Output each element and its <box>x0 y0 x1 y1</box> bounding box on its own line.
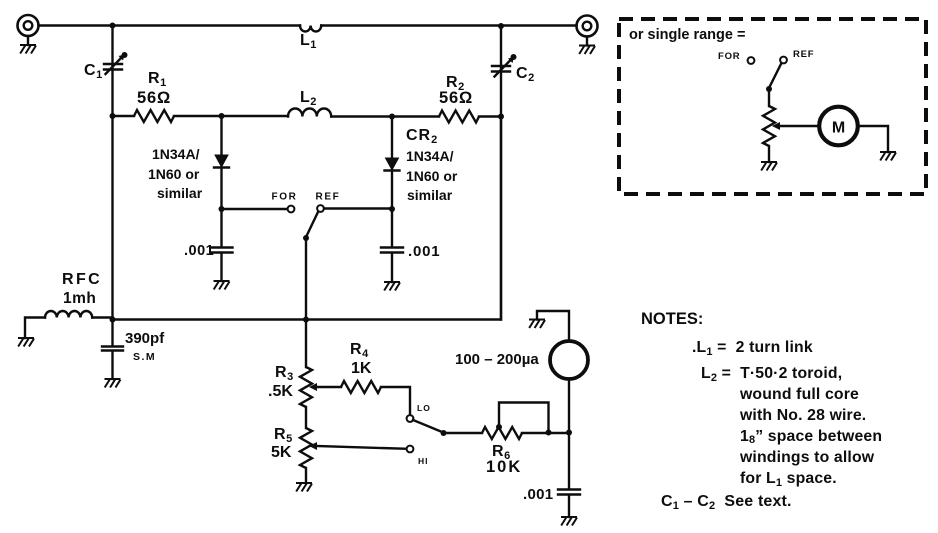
wire switch pole down to R3 <box>305 238 307 367</box>
wire mid rail: L2 to R2 <box>331 115 439 117</box>
node dot diode2 top <box>389 114 395 120</box>
node dot top-left <box>110 23 116 29</box>
capacitor C2 variable <box>492 54 535 84</box>
capacitor C3 .001 (left) <box>184 209 233 281</box>
diode CR2 <box>385 117 458 210</box>
capacitor 390pf <box>102 320 165 380</box>
potentiometer R3 <box>268 364 341 407</box>
rheostat R6 <box>482 403 549 477</box>
wire diode1 to FOR terminal <box>222 208 288 210</box>
svg-text:1K: 1K <box>351 360 372 377</box>
node dot diode1 top <box>219 113 225 119</box>
inset meter M <box>819 107 858 146</box>
node dot meter line <box>566 430 572 436</box>
svg-text:FOR: FOR <box>272 192 298 203</box>
terminal LO <box>407 403 431 422</box>
svg-text:S.M: S.M <box>133 351 156 363</box>
wire top rail left segment <box>39 24 301 26</box>
svg-text:1mh: 1mh <box>63 290 96 307</box>
node switch pole lower <box>441 430 447 436</box>
node dot diode1 bottom <box>219 206 225 212</box>
wire RFC right lead <box>92 316 112 318</box>
svg-text:1N34A/: 1N34A/ <box>406 148 454 164</box>
svg-text:.001: .001 <box>523 486 553 503</box>
svg-text:REF: REF <box>316 192 341 203</box>
svg-text:REF: REF <box>793 49 814 60</box>
svg-text:C1 – C2 See text.: C1 – C2 See text. <box>661 493 792 512</box>
terminal FOR <box>272 192 298 213</box>
wire J2 stem <box>586 37 588 46</box>
node dot left-mid <box>110 113 116 119</box>
svg-text:.001: .001 <box>408 243 440 260</box>
resistor R4 <box>341 341 381 393</box>
svg-text:similar: similar <box>407 187 453 203</box>
svg-text:.5K: .5K <box>268 383 293 400</box>
capacitor C5 .001 (meter) <box>523 486 580 517</box>
svg-text:windings to allow: windings to allow <box>739 449 875 466</box>
connector J2 (right coax output) <box>577 16 598 37</box>
wire right rail vertical <box>500 26 502 320</box>
wire REF terminal to diode2 <box>324 207 392 209</box>
node dot right-mid <box>498 114 504 120</box>
node dot top-right <box>498 23 504 29</box>
wire R4 to LO terminal <box>381 387 410 415</box>
inset switch pole dot <box>766 86 772 92</box>
meter M1 100-200ua <box>455 341 588 379</box>
svg-text:with No. 28 wire.: with No. 28 wire. <box>739 407 866 424</box>
svg-text:10K: 10K <box>486 458 522 476</box>
svg-text:NOTES:: NOTES: <box>641 310 703 328</box>
svg-text:or single range =: or single range = <box>629 27 745 43</box>
svg-text:similar: similar <box>157 185 203 201</box>
ground under 390pf <box>105 379 121 388</box>
inset ground right <box>880 152 896 161</box>
potentiometer R5 <box>271 426 407 468</box>
wire R6 to meter line <box>522 432 569 434</box>
node dot bottom-left junction <box>110 317 116 323</box>
svg-text:L2 = T·50·2 toroid,: L2 = T·50·2 toroid, <box>701 365 842 384</box>
wire R3 to R5 <box>305 407 307 428</box>
wire mid rail: R1 to L2 <box>174 115 288 117</box>
ground under C5 <box>561 517 577 526</box>
wire meter top to ground <box>537 311 569 341</box>
wire left rail vertical <box>111 26 113 320</box>
svg-text:1N34A/: 1N34A/ <box>152 146 200 162</box>
ground under J2 <box>579 46 595 55</box>
switch arm S1b lower <box>413 420 441 432</box>
inset ground under pot <box>768 146 770 162</box>
wire RFC left lead <box>25 318 45 339</box>
capacitor C1 variable <box>84 52 128 81</box>
ground left of RFC <box>18 338 34 347</box>
inductor RFC <box>45 271 102 318</box>
svg-text:56Ω: 56Ω <box>137 89 171 107</box>
ground under C4 <box>384 282 400 291</box>
svg-text:5K: 5K <box>271 444 292 461</box>
inductor L1 <box>300 26 321 52</box>
diode CR1 <box>148 116 229 209</box>
ground under J1 <box>20 45 36 54</box>
inset terminal REF <box>780 49 814 63</box>
inset wire pole to pot <box>768 89 770 106</box>
svg-text:HI: HI <box>418 456 429 466</box>
wire J1 stem <box>27 36 29 45</box>
wire meter bottom <box>568 379 570 489</box>
ground under C3 <box>214 281 230 290</box>
node dot rail crossing <box>303 317 309 323</box>
switch arm S1a upper <box>307 212 319 236</box>
node switch pole upper <box>303 235 309 241</box>
svg-text:1N60 or: 1N60 or <box>406 168 458 184</box>
node dot diode2 bottom <box>389 206 395 212</box>
inset potentiometer <box>763 106 819 146</box>
svg-text:.001: .001 <box>184 243 214 259</box>
resistor R1 <box>134 70 174 122</box>
connector J1 (left coax input) <box>18 15 39 36</box>
wire top rail right segment <box>321 24 576 26</box>
node dot R6 right <box>546 430 552 436</box>
ground at meter top <box>529 320 545 329</box>
svg-text:390pf: 390pf <box>125 330 165 347</box>
inset switch arm <box>770 63 782 87</box>
inset terminal FOR <box>718 51 754 64</box>
svg-text:RFC: RFC <box>62 271 102 288</box>
resistor R2 <box>439 74 479 123</box>
svg-text:M: M <box>832 120 845 137</box>
svg-text:100 – 200µa: 100 – 200µa <box>455 351 539 368</box>
svg-text:LO: LO <box>417 403 431 413</box>
svg-text:for L1 space.: for L1 space. <box>740 470 837 489</box>
svg-text:1N60 or: 1N60 or <box>148 166 200 182</box>
ground under R5 <box>305 468 307 483</box>
svg-text:FOR: FOR <box>718 51 740 62</box>
terminal HI <box>407 446 429 466</box>
wire bottom rail <box>113 117 502 320</box>
inset dashed box <box>619 19 926 194</box>
capacitor C4 .001 (right) <box>381 209 440 282</box>
svg-text:wound full core: wound full core <box>739 386 859 403</box>
inset wire meter to ground <box>858 126 888 152</box>
wire pole to R6 <box>444 432 483 434</box>
wire mid rail: R2 to right rail <box>479 115 501 117</box>
terminal REF <box>316 192 341 212</box>
svg-text:56Ω: 56Ω <box>439 89 473 107</box>
wire mid rail: left rail to R1 <box>113 115 135 117</box>
svg-text:18” space between: 18” space between <box>740 428 882 446</box>
inductor L2 <box>288 89 331 117</box>
